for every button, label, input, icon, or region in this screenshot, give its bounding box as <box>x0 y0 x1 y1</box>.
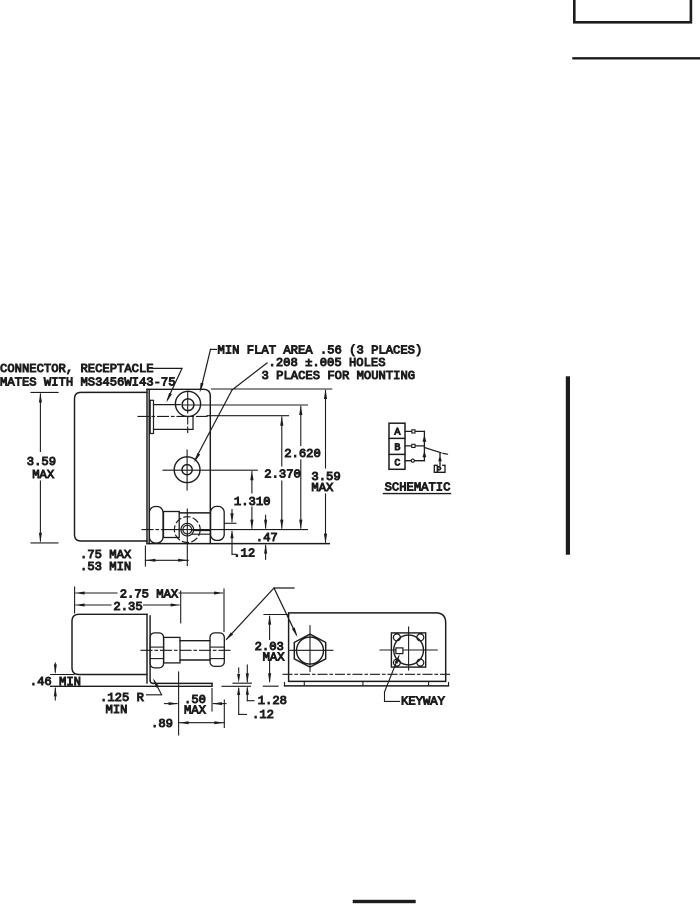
svg-text:2.620: 2.620 <box>284 447 321 461</box>
svg-text:.89: .89 <box>151 717 173 731</box>
svg-text:2.35: 2.35 <box>113 600 142 614</box>
svg-text:MIN: MIN <box>106 703 128 717</box>
svg-text:MATES WITH MS3456WI43-75: MATES WITH MS3456WI43-75 <box>0 376 176 390</box>
svg-text:CONNECTOR, RECEPTACLE: CONNECTOR, RECEPTACLE <box>0 362 154 376</box>
svg-text:1.28: 1.28 <box>258 694 287 708</box>
svg-text:B: B <box>394 443 400 454</box>
svg-text:MAX: MAX <box>263 650 286 664</box>
svg-text:.53 MIN: .53 MIN <box>80 560 131 574</box>
svg-text:.47: .47 <box>256 531 278 545</box>
svg-text:2.370: 2.370 <box>264 467 301 481</box>
svg-text:KEYWAY: KEYWAY <box>401 695 446 709</box>
svg-text:.46 MIN: .46 MIN <box>30 675 81 689</box>
svg-text:MAX: MAX <box>184 704 207 718</box>
svg-text:A: A <box>394 427 400 438</box>
svg-text:.12: .12 <box>252 708 274 722</box>
svg-text:.12: .12 <box>233 547 255 561</box>
svg-text:MAX: MAX <box>32 468 55 482</box>
svg-text:3 PLACES FOR MOUNTING: 3 PLACES FOR MOUNTING <box>262 369 416 383</box>
svg-text:MAX: MAX <box>311 481 334 495</box>
svg-text:P: P <box>437 466 442 475</box>
svg-text:C: C <box>394 458 400 469</box>
svg-text:3.59: 3.59 <box>27 455 56 469</box>
svg-text:SCHEMATIC: SCHEMATIC <box>385 481 451 495</box>
svg-text:1.310: 1.310 <box>234 495 271 509</box>
